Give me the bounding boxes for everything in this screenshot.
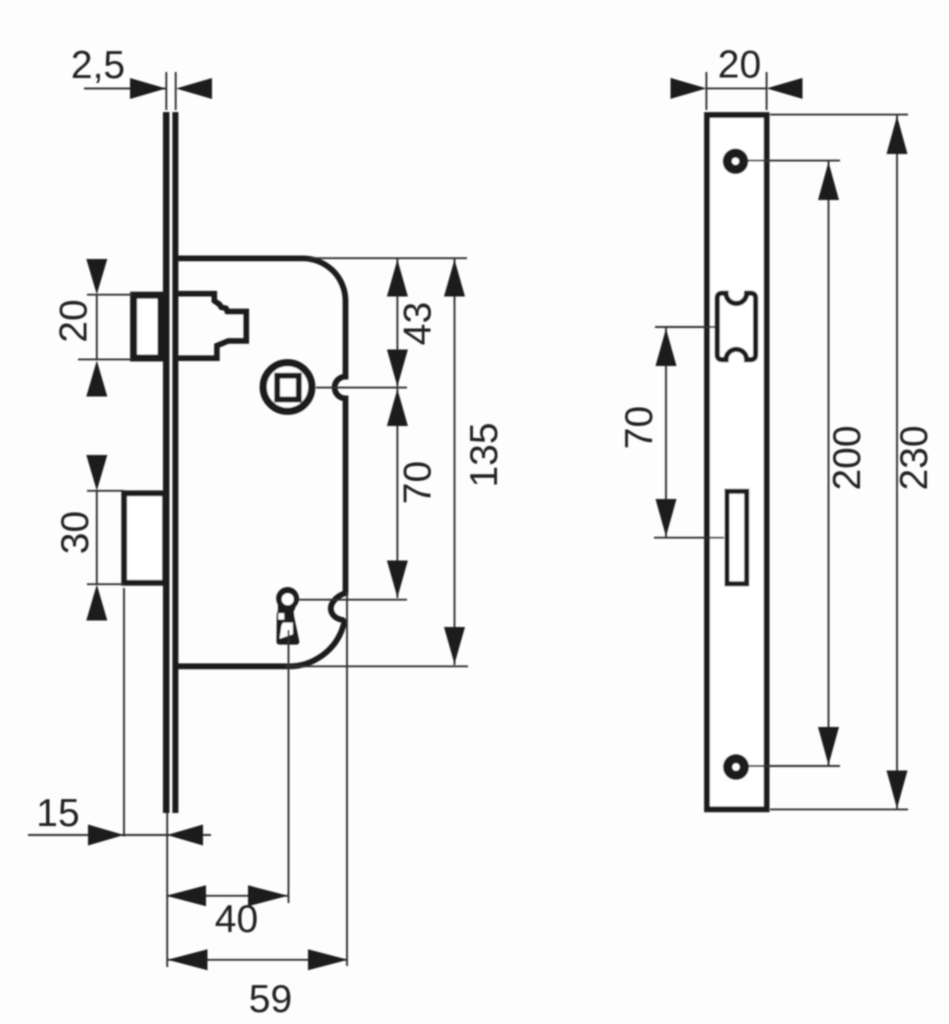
svg-text:70: 70	[618, 406, 661, 449]
arrow 230 bottom	[887, 771, 908, 809]
spindle square hole	[277, 376, 299, 400]
dim 135 line	[454, 258, 456, 665]
deadbolt cutout	[727, 491, 747, 584]
arrow 40 left	[166, 885, 206, 906]
svg-text:70: 70	[397, 461, 440, 504]
arrow 200 top	[818, 162, 839, 200]
svg-text:40: 40	[215, 898, 258, 941]
plate bottom extension line	[770, 808, 908, 810]
arrow 43 top	[387, 260, 408, 297]
arrow 40 right	[248, 885, 288, 906]
dim 30 tick top	[87, 490, 124, 492]
arrow 135 bottom	[444, 627, 465, 664]
arrow 20L bottom	[86, 361, 107, 397]
dim 2,5 leader line	[84, 88, 166, 90]
arrow 20R right	[767, 78, 803, 99]
deadbolt cutout level line	[654, 537, 724, 539]
svg-text:15: 15	[36, 792, 79, 835]
svg-text:200: 200	[826, 425, 869, 490]
svg-text:135: 135	[463, 422, 506, 487]
latch cutout level line	[655, 326, 715, 328]
bottom screw level line	[749, 765, 840, 767]
dim 20 line	[96, 295, 98, 360]
spindle hub ring	[263, 363, 312, 412]
dim 15 leader left	[28, 834, 167, 836]
latch bolt head	[134, 295, 161, 358]
svg-text:43: 43	[397, 302, 440, 345]
dim 59 line	[167, 959, 348, 961]
arrow 15 right	[167, 825, 203, 846]
spindle level line	[316, 387, 407, 389]
body right edge extension line	[346, 592, 348, 966]
dim 20 right ext a	[705, 72, 707, 110]
arrow 20R left	[671, 78, 707, 99]
dim 2,5 extension line b	[175, 72, 177, 110]
arrow 30 top	[86, 455, 107, 491]
arrow 59 right	[308, 949, 348, 970]
arrow 2,5 left	[130, 78, 166, 99]
dim 40 line	[167, 895, 288, 897]
dim 70 right line	[665, 327, 667, 538]
dim 2,5 extension line a	[165, 72, 167, 110]
keyhole level line	[298, 599, 407, 601]
dim 200 line	[828, 161, 830, 766]
dim 30 line	[96, 491, 98, 584]
arrow 70R bottom	[656, 499, 677, 537]
top screw level line	[748, 160, 840, 162]
arrow 59 left	[168, 949, 208, 970]
arrow 2,5 right	[176, 78, 212, 99]
plate top extension line	[770, 114, 908, 116]
arrow 230 top	[887, 116, 908, 154]
dim 230 line	[896, 115, 898, 810]
bottom screw hole	[723, 754, 749, 780]
lock body outline	[178, 258, 346, 666]
arrow 43 bottom	[387, 350, 408, 387]
deadbolt	[124, 493, 165, 583]
top screw hole	[723, 149, 749, 175]
arrow 20L top	[86, 259, 107, 295]
faceplate back line	[172, 112, 178, 813]
body top extension line	[309, 257, 467, 259]
arrow 70R top	[656, 329, 677, 367]
dim 30 tick bottom	[87, 583, 124, 585]
svg-text:20: 20	[718, 44, 761, 87]
arrow 30 bottom	[86, 585, 107, 621]
dim 70 left line	[396, 389, 398, 599]
svg-text:59: 59	[249, 978, 292, 1021]
faceplate front line	[163, 112, 170, 813]
arrow 15 left	[88, 825, 124, 846]
svg-text:2,5: 2,5	[71, 44, 125, 87]
latch bolt body	[177, 294, 246, 359]
arrow 70L bottom	[387, 561, 408, 598]
keyhole extension line	[288, 630, 290, 903]
faceplate extension line	[166, 813, 168, 967]
dim 20 tick top	[87, 294, 132, 296]
keyhole	[276, 587, 299, 645]
arrow 200 bottom	[818, 727, 839, 765]
svg-text:20: 20	[53, 299, 96, 342]
deadbolt extension line	[123, 588, 125, 837]
dim 20 right line	[707, 87, 767, 89]
dim 43 line	[396, 258, 398, 386]
arrow 135 top	[444, 260, 465, 297]
dim 20 right ext b	[766, 72, 768, 110]
latch cutout	[717, 293, 755, 359]
arrow 70L top	[387, 389, 408, 426]
body bottom extension line	[285, 665, 468, 667]
svg-text:30: 30	[54, 511, 97, 554]
striker plate outline	[707, 115, 767, 809]
svg-text:230: 230	[893, 425, 936, 490]
dim 20 tick bottom	[78, 358, 132, 360]
dim 15 tail right	[167, 834, 211, 836]
